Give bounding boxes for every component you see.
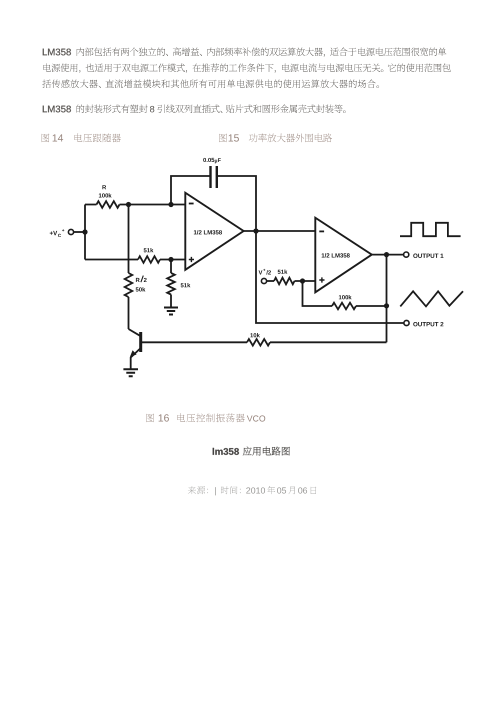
label 100k R6 xyxy=(339,295,352,299)
U2 plus sign xyxy=(319,277,324,282)
resistor R2 R/2 50k xyxy=(125,273,133,297)
label U2 1/2 LM358 xyxy=(322,253,350,257)
node cap branch junction xyxy=(168,202,173,207)
U1 plus sign xyxy=(189,257,194,262)
capacitor C1 0.05uF xyxy=(211,166,217,188)
wire feedback down xyxy=(303,281,333,306)
square wave icon xyxy=(400,223,461,236)
title lm358 xyxy=(213,447,290,456)
label 100k xyxy=(99,193,112,197)
label 51k R3 xyxy=(144,248,154,252)
label R xyxy=(102,185,106,189)
node minus-row / R2 junction xyxy=(126,202,131,207)
ground under Q1 xyxy=(123,369,138,376)
wire 10k row xyxy=(142,341,387,343)
wire U1 output row xyxy=(244,230,316,232)
node plus-row junction xyxy=(168,257,173,262)
wire U1 output down to OUTPUT2 row xyxy=(256,231,404,323)
resistor R7 10k xyxy=(247,339,270,346)
triangle wave icon xyxy=(400,291,463,306)
wire left vertical +Vc branch xyxy=(84,205,86,260)
node U1 output junction xyxy=(253,228,258,233)
wire cap to feedback corner xyxy=(217,176,256,229)
wire R5 to U2 plus xyxy=(295,280,316,282)
caption fig14 fig15 xyxy=(42,133,332,142)
wire cap branch up xyxy=(171,176,210,205)
label 50k xyxy=(136,287,146,291)
transistor Q1 collector xyxy=(129,329,141,336)
op-amp U1 triangle xyxy=(185,193,243,270)
op-amp U2 triangle xyxy=(315,218,372,293)
wire +Vc to vertical xyxy=(74,231,85,233)
terminal V+/2 xyxy=(261,278,266,283)
node U2 output junction xyxy=(384,252,389,257)
paragraph 1 xyxy=(42,47,450,88)
wire R2 vertical xyxy=(128,205,130,274)
wire U2 output xyxy=(372,254,403,256)
transistor Q1 emitter xyxy=(131,348,141,369)
wire R6 to right vertical xyxy=(356,305,387,307)
wire 51k-gnd vertical top xyxy=(170,260,172,274)
resistor R3 51k xyxy=(138,256,160,263)
node feedback junction xyxy=(384,303,389,308)
label OUTPUT 1 xyxy=(413,254,443,258)
wire minus-input row xyxy=(85,204,186,206)
Q1 emitter arrow xyxy=(130,350,137,357)
terminal OUTPUT 2 xyxy=(404,320,409,325)
U2 minus sign xyxy=(319,230,324,232)
wire R2 to transistor xyxy=(128,297,130,329)
resistor R6 100k xyxy=(332,303,356,310)
resistor R5 51k xyxy=(274,278,295,285)
resistor R4 51k vertical xyxy=(167,273,175,295)
label OUTPUT 2 xyxy=(413,322,443,326)
terminal OUTPUT 1 xyxy=(404,252,409,257)
label 51k R5 xyxy=(278,270,288,274)
label V+/2 xyxy=(259,270,263,274)
ground under 51k xyxy=(164,308,178,315)
transistor Q1 base bar xyxy=(139,332,142,352)
node U2 plus junction xyxy=(300,278,305,283)
wire 51k to ground xyxy=(170,295,172,308)
paragraph 2 xyxy=(43,104,346,113)
label +Vc xyxy=(50,231,57,235)
label 51k R4 xyxy=(181,283,191,287)
wire right vertical U2out to 10k row xyxy=(386,255,388,343)
node +Vc junction xyxy=(82,229,87,234)
caption fig16 xyxy=(146,413,265,422)
U1 minus sign xyxy=(189,203,194,205)
label 10k xyxy=(250,333,260,337)
wire V+/2 to resistor xyxy=(267,280,274,282)
label U1 1/2 LM358 xyxy=(194,230,222,234)
resistor R1 R 100k xyxy=(97,201,120,208)
terminal +Vc xyxy=(68,229,73,234)
label R/2 xyxy=(136,278,140,282)
label 0.05uF xyxy=(203,158,214,162)
source line xyxy=(188,486,316,495)
wire plus row xyxy=(85,259,186,261)
